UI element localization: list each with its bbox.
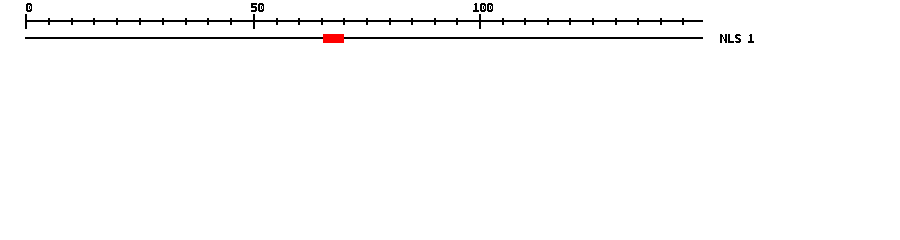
minor ticks (48, 18, 684, 25)
label 0 (26, 3, 32, 12)
ruler line (25, 20, 703, 22)
domain box NLS (red) (323, 34, 344, 43)
sequence line (25, 37, 703, 39)
label NLS 1 (720, 34, 754, 43)
major ticks 0/50/100 (25, 14, 481, 29)
label 100 (473, 3, 493, 12)
label 50 (251, 3, 264, 12)
